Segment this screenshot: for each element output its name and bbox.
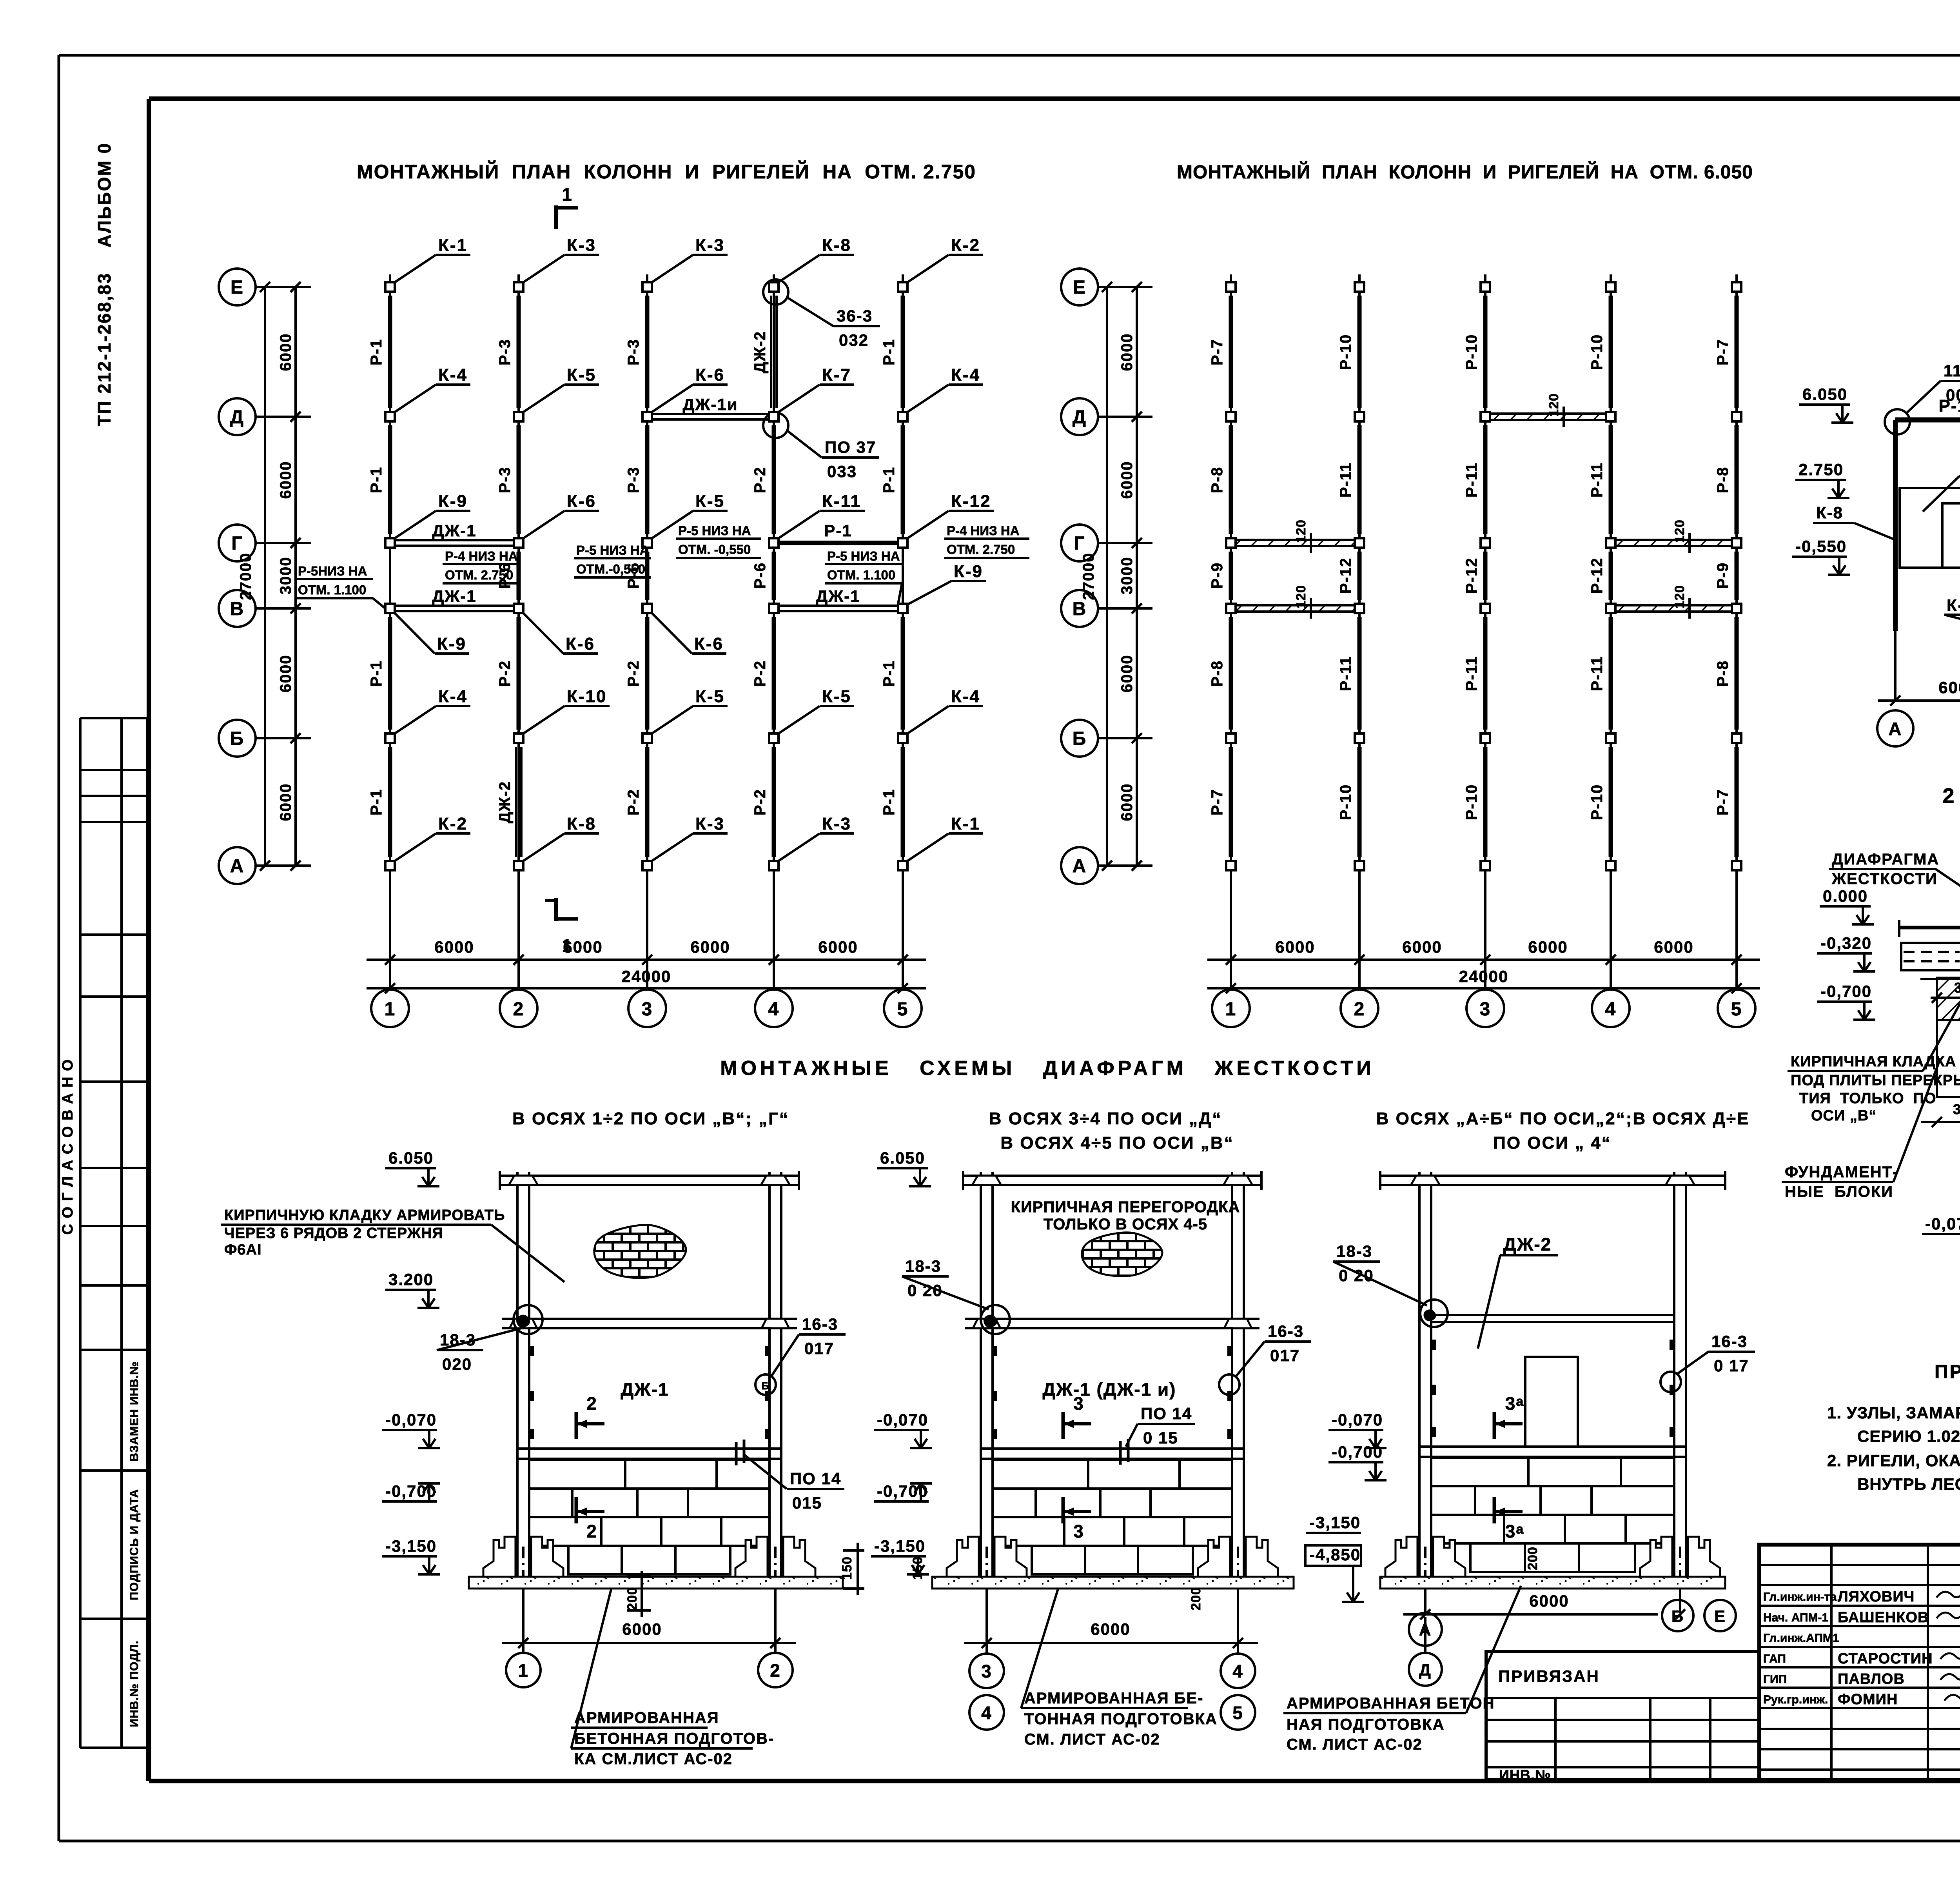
scheme 1 node circle 16-3 (right col) [755, 1374, 776, 1395]
ground strip армированная бетонная подготовка [932, 1577, 1294, 1589]
vertical dimension lines [264, 287, 266, 866]
svg-text:18-3: 18-3 [440, 1331, 476, 1349]
outer page border [59, 54, 1960, 57]
svg-text:2: 2 [770, 1660, 781, 1681]
svg-text:36-3: 36-3 [837, 307, 873, 325]
svg-text:300: 300 [1953, 1101, 1960, 1117]
svg-text:ОТМ. 2.750: ОТМ. 2.750 [947, 542, 1015, 557]
svg-text:009: 009 [1946, 386, 1960, 404]
beam Р-2 column line 4 rows Д-Г [772, 425, 776, 534]
svg-text:ГАП: ГАП [1763, 1652, 1786, 1665]
svg-text:5: 5 [897, 999, 909, 1020]
svg-text:К-3: К-3 [822, 814, 851, 833]
beam Р-11 right plan col2 Д-Г [1357, 425, 1362, 534]
svg-text:К-12: К-12 [951, 492, 991, 511]
node circle 11-3 top of col А [1885, 409, 1910, 434]
beam Р-10 right plan col3 Е-Д [1483, 296, 1488, 408]
axis circle А section 1-1 [1877, 710, 1913, 746]
inner drawing frame [149, 96, 1960, 101]
scheme 1 bottom dim 6000 [502, 1642, 796, 1644]
scheme middle beam 3.200 [502, 1318, 797, 1320]
svg-text:АРМИРОВАННАЯ БЕ-: АРМИРОВАННАЯ БЕ- [1024, 1690, 1203, 1707]
ДЖ-2 panel in section 1-1 [1900, 488, 1960, 568]
svg-text:-0,320: -0,320 [1820, 934, 1872, 952]
section 1-1 top beam 6.050 [1895, 418, 1960, 423]
node circle col4 row Д (ПО 37) [763, 413, 788, 438]
svg-text:Р-1: Р-1 [880, 789, 898, 815]
beam Р-9 right plan col1 Г-В [1229, 552, 1233, 600]
section mark 3<tspan baseline-shift="28%" font-size="34">а</tspan> [1493, 1497, 1496, 1523]
scheme top beam [1380, 1175, 1725, 1177]
svg-text:4: 4 [1232, 1661, 1243, 1681]
svg-text:А: А [1419, 1621, 1432, 1639]
svg-text:Д: Д [230, 407, 244, 428]
svg-text:6000: 6000 [1528, 938, 1568, 956]
svg-text:6.050: 6.050 [388, 1149, 434, 1167]
svg-text:6000: 6000 [277, 461, 294, 499]
beam Р-1 column line 1 rows Д-Г [388, 425, 392, 534]
ground strip армированная бетонная подготовка [469, 1577, 843, 1589]
svg-text:18-3: 18-3 [905, 1257, 941, 1275]
svg-text:Р-12: Р-12 [1588, 557, 1606, 594]
svg-text:-3,150: -3,150 [385, 1537, 437, 1555]
beam Р-10 right plan col4 Б-А [1609, 747, 1613, 857]
beam Р-7 right plan col5 Е-Д [1735, 296, 1739, 408]
scheme 2 node circle 18-3 [981, 1305, 1010, 1334]
svg-text:120: 120 [1672, 519, 1687, 543]
svg-text:К-10: К-10 [567, 687, 607, 706]
svg-text:6000: 6000 [1654, 938, 1693, 956]
title block left extension привязан [1486, 1652, 1759, 1780]
svg-text:А: А [1073, 856, 1087, 877]
axis number circle 5 [884, 989, 922, 1027]
scheme columns [516, 1172, 519, 1541]
svg-text:3: 3 [1073, 1521, 1084, 1541]
svg-text:6.050: 6.050 [880, 1149, 925, 1167]
svg-text:1: 1 [385, 999, 396, 1020]
svg-text:020: 020 [442, 1355, 472, 1373]
ground strip армированная бетонная подготовка [1380, 1577, 1725, 1589]
svg-text:ДЖ-2: ДЖ-2 [751, 331, 769, 373]
svg-text:Е: Е [230, 277, 244, 298]
svg-text:ДИАФРАГМА: ДИАФРАГМА [1832, 851, 1939, 868]
svg-text:6000: 6000 [1118, 333, 1136, 371]
svg-text:6000: 6000 [1118, 655, 1136, 693]
svg-text:27000: 27000 [237, 552, 254, 600]
svg-text:Р-8: Р-8 [1714, 467, 1731, 493]
beam Р-12 right plan col4 Г-В [1609, 552, 1613, 600]
svg-text:1: 1 [1225, 999, 1237, 1020]
beam Р-6 column line 4 rows Г-В [772, 552, 776, 600]
svg-text:0.000: 0.000 [1823, 887, 1868, 905]
scheme 3 axis circles А Д / Б Е [1424, 1617, 1426, 1653]
svg-text:Р-10: Р-10 [1337, 784, 1354, 821]
bottom dimension lines and axis number circles [1207, 959, 1760, 961]
svg-text:Р-4 НИЗ НА: Р-4 НИЗ НА [445, 549, 518, 563]
axis circle Е [219, 269, 256, 305]
svg-text:ПО 37: ПО 37 [825, 438, 876, 456]
title block signature table [1759, 1564, 1960, 1566]
scheme columns [980, 1172, 982, 1541]
beam Р-9 right plan col5 Г-В [1735, 552, 1739, 600]
svg-text:ПРИМЕЧАНИЯ: ПРИМЕЧАНИЯ [1935, 1362, 1960, 1382]
svg-text:Р-11: Р-11 [1463, 462, 1480, 497]
svg-text:Ф6АI: Ф6АI [224, 1242, 262, 1258]
svg-text:ТОЛЬКО В ОСЯХ 4-5: ТОЛЬКО В ОСЯХ 4-5 [1044, 1216, 1207, 1233]
svg-text:КА СМ.ЛИСТ АС-02: КА СМ.ЛИСТ АС-02 [574, 1750, 733, 1768]
svg-text:Р-2: Р-2 [625, 789, 642, 815]
svg-text:В ОСЯХ „А÷Б“ ПО ОСИ„2“;В ОСЯХ: В ОСЯХ „А÷Б“ ПО ОСИ„2“;В ОСЯХ Д÷Е [1376, 1109, 1750, 1128]
svg-text:Р-7: Р-7 [1209, 339, 1226, 365]
svg-text:К-6: К-6 [567, 492, 596, 511]
footings [1385, 1537, 1417, 1577]
svg-text:27000: 27000 [1080, 552, 1097, 600]
svg-text:6000: 6000 [277, 655, 294, 693]
footings [483, 1537, 515, 1577]
svg-text:Р-5 НИЗ НА: Р-5 НИЗ НА [827, 549, 900, 563]
svg-text:НЫЕ БЛОКИ: НЫЕ БЛОКИ [1785, 1183, 1893, 1200]
beam Р-3 column line 2 rows Е-Д [517, 296, 521, 408]
svg-text:Р-7: Р-7 [1714, 789, 1731, 815]
svg-text:6000: 6000 [818, 938, 858, 956]
section 1-1 bottom dims [1878, 699, 1960, 702]
svg-text:ДЖ-1: ДЖ-1 [432, 587, 476, 605]
scheme columns [1418, 1172, 1421, 1541]
svg-text:-0,550: -0,550 [1795, 537, 1847, 556]
beam Р-8 right plan col5 В-Б [1735, 617, 1739, 730]
svg-text:К-6: К-6 [695, 365, 725, 385]
svg-text:ОТМ.-0,550: ОТМ.-0,550 [576, 562, 645, 576]
scheme 3 node circle 16-3 [1661, 1372, 1681, 1392]
2-2 foundation block [1937, 1020, 1960, 1097]
svg-text:Р-1: Р-1 [824, 521, 852, 540]
beam Р-3 column line 3 rows Е-Д [645, 296, 650, 408]
svg-text:11-3: 11-3 [1944, 361, 1960, 380]
left plan section mark 1 bottom [554, 898, 558, 921]
svg-text:6000: 6000 [277, 333, 294, 371]
beam Р-1 column line 5 rows Б-А [901, 747, 905, 857]
bottom dimension lines and axis number circles [367, 959, 926, 961]
svg-text:Р-4 НИЗ НА: Р-4 НИЗ НА [947, 523, 1020, 538]
svg-text:6000: 6000 [1275, 938, 1315, 956]
title block main frame [1759, 1545, 1960, 1780]
svg-text:ТОННАЯ ПОДГОТОВКА: ТОННАЯ ПОДГОТОВКА [1024, 1710, 1218, 1728]
beam Р-1 column line 5 rows Е-Д [901, 296, 905, 408]
svg-text:-0,700: -0,700 [1332, 1443, 1383, 1461]
svg-text:К-6: К-6 [694, 634, 724, 654]
svg-text:ДЖ-1 (ДЖ-1 и): ДЖ-1 (ДЖ-1 и) [1043, 1379, 1176, 1400]
axis circle А [1061, 847, 1098, 884]
svg-text:-4,850: -4,850 [1309, 1545, 1361, 1564]
svg-text:Р-12: Р-12 [1463, 557, 1480, 594]
beam Р-11 right plan col3 В-Б [1483, 617, 1488, 730]
svg-text:Р-8: Р-8 [1209, 660, 1226, 687]
svg-text:18-3: 18-3 [1336, 1242, 1372, 1260]
beam ДЖ-2 column line 2 rows Б-А [515, 747, 517, 857]
svg-text:3000: 3000 [1118, 557, 1136, 595]
svg-text:ОТМ. -0,550: ОТМ. -0,550 [678, 542, 751, 557]
scheme 2 bottom dim 6000 [964, 1642, 1258, 1644]
svg-text:С О Г Л А С О В А Н О: С О Г Л А С О В А Н О [60, 1058, 76, 1235]
beam Р-7 right plan col1 Е-Д [1229, 296, 1233, 408]
svg-text:16-3: 16-3 [1711, 1332, 1748, 1351]
svg-text:Р-6: Р-6 [751, 562, 769, 589]
svg-text:Б: Б [1671, 1607, 1684, 1625]
svg-text:Р-5НИЗ НА: Р-5НИЗ НА [298, 564, 367, 578]
beam Р-11 right plan col4 Д-Г [1609, 425, 1613, 534]
axis number circle 1 [1212, 989, 1250, 1027]
svg-text:СЕРИЮ 1.020-1 ВЫПУСК 1 -1.: СЕРИЮ 1.020-1 ВЫПУСК 1 -1. [1857, 1427, 1960, 1445]
svg-text:Р-9: Р-9 [1209, 562, 1226, 589]
axis circle А [219, 847, 256, 884]
axis circle Г [1061, 525, 1098, 561]
svg-text:6000: 6000 [1529, 1592, 1569, 1610]
beam Р-2 column line 2 rows В-Б [517, 617, 521, 730]
beam Р-6 column line 3 rows Г-В [645, 552, 650, 600]
beam Р-1 column line 1 rows Б-А [388, 747, 392, 857]
right plan column grid lines [1230, 274, 1232, 960]
svg-text:Б: Б [762, 1380, 770, 1392]
svg-text:Нач. АПМ-1: Нач. АПМ-1 [1763, 1611, 1828, 1624]
beam Р-10 right plan col4 Е-Д [1609, 296, 1613, 408]
svg-text:ИНВ.№: ИНВ.№ [1499, 1767, 1551, 1783]
beam Р-8 right plan col5 Д-Г [1735, 425, 1739, 534]
svg-text:ИНВ.№ ПОДЛ.: ИНВ.№ ПОДЛ. [128, 1640, 141, 1727]
axis circle Е [1061, 269, 1098, 305]
svg-text:6.050: 6.050 [1802, 385, 1847, 403]
svg-text:К-2: К-2 [951, 236, 980, 255]
svg-text:К-4: К-4 [951, 365, 980, 385]
svg-text:Р-3: Р-3 [625, 467, 642, 493]
svg-text:БЕТОННАЯ ПОДГОТОВ-: БЕТОННАЯ ПОДГОТОВ- [574, 1730, 774, 1747]
svg-text:НАЯ ПОДГОТОВКА: НАЯ ПОДГОТОВКА [1287, 1716, 1445, 1733]
svg-text:Е: Е [1073, 277, 1086, 298]
foundation blocks [1431, 1458, 1674, 1486]
svg-text:1: 1 [562, 184, 573, 205]
svg-text:3.200: 3.200 [388, 1270, 434, 1289]
axis circle Б [1061, 720, 1098, 757]
svg-text:150: 150 [910, 1556, 925, 1580]
beam Р-11 right plan col2 В-Б [1357, 617, 1362, 730]
beam Р-8 right plan col1 В-Б [1229, 617, 1233, 730]
scheme panel [529, 1328, 769, 1449]
beam Р-3 column line 3 rows Д-Г [645, 425, 650, 534]
beam Р-8 right plan col1 Д-Г [1229, 425, 1233, 534]
svg-text:ПАВЛОВ: ПАВЛОВ [1838, 1671, 1905, 1687]
svg-text:ДЖ-1и: ДЖ-1и [682, 395, 738, 414]
svg-text:6000: 6000 [277, 783, 294, 821]
svg-text:К-6: К-6 [566, 634, 595, 654]
svg-text:2.750: 2.750 [1798, 460, 1844, 479]
svg-text:ПРИВЯЗАН: ПРИВЯЗАН [1498, 1667, 1600, 1685]
beam Р-6 column line 2 rows Г-В [517, 552, 521, 600]
svg-text:В ОСЯХ 1÷2 ПО ОСИ „В“; „Г“: В ОСЯХ 1÷2 ПО ОСИ „В“; „Г“ [512, 1109, 789, 1128]
scheme panel [993, 1328, 1232, 1449]
svg-text:Гл.инж.ин-та: Гл.инж.ин-та [1763, 1590, 1837, 1603]
svg-text:ДЖ-1: ДЖ-1 [816, 587, 860, 605]
svg-text:ОТМ. 1.100: ОТМ. 1.100 [298, 583, 366, 597]
2-2 foundation dims 300 100 [1921, 1121, 1960, 1123]
svg-text:ПО ОСИ „ 4“: ПО ОСИ „ 4“ [1493, 1133, 1612, 1153]
svg-text:015: 015 [792, 1494, 822, 1512]
scheme 3 node circle 18-3 [1420, 1300, 1448, 1327]
svg-text:Р-8: Р-8 [1209, 467, 1226, 493]
svg-text:Р-1: Р-1 [880, 339, 898, 365]
svg-text:Д: Д [1073, 407, 1087, 428]
svg-text:Р-9: Р-9 [1714, 562, 1731, 589]
svg-text:6000: 6000 [434, 938, 474, 956]
svg-text:К-1: К-1 [951, 814, 980, 833]
node circle col4 row Е (36-3) [763, 280, 788, 305]
svg-text:Р-1: Р-1 [368, 789, 385, 815]
svg-text:Р-3: Р-3 [496, 339, 514, 365]
svg-text:ЛЯХОВИЧ: ЛЯХОВИЧ [1838, 1589, 1915, 1605]
svg-text:Р-2: Р-2 [751, 467, 769, 493]
svg-text:Р-10: Р-10 [1588, 784, 1606, 821]
beam ДЖ-1 row Г cols1-2 [396, 539, 513, 541]
svg-text:Д: Д [1419, 1661, 1432, 1679]
axis circle В [1061, 590, 1098, 627]
svg-text:2 - 2: 2 - 2 [1942, 784, 1960, 808]
svg-text:МОНТАЖНЫЕ СХЕМЫ ДИАФРАГМ: МОНТАЖНЫЕ СХЕМЫ ДИАФРАГМ ЖЕСТКОСТИ [720, 1057, 1375, 1080]
beam Р-12 right plan col2 Г-В [1357, 552, 1362, 600]
beam Р-10 right plan col3 Б-А [1483, 747, 1488, 857]
scheme floor beam -0.070 [1419, 1445, 1686, 1448]
svg-text:1. УЗЛЫ, ЗАМАРКИРОВАННЫЕ НА М: 1. УЗЛЫ, ЗАМАРКИРОВАННЫЕ НА МОНТАЖНЫХ СХ… [1827, 1403, 1960, 1422]
svg-text:ФОМИН: ФОМИН [1838, 1691, 1898, 1708]
svg-text:Р-1: Р-1 [368, 467, 385, 493]
svg-text:К-9: К-9 [438, 492, 468, 511]
scheme floor beam -0.070 [981, 1447, 1244, 1450]
svg-text:24000: 24000 [1459, 967, 1509, 986]
svg-text:6000: 6000 [1118, 461, 1136, 499]
beam Р-10 right plan col2 Б-А [1357, 747, 1362, 857]
svg-text:К-10: К-10 [1947, 596, 1960, 614]
svg-text:3: 3 [642, 999, 653, 1020]
hatched beam 120 row Д cols 3-4 [1491, 412, 1605, 415]
svg-text:120: 120 [1672, 585, 1687, 608]
scheme 2 axis circles 3 4 / 4 5 [969, 1654, 1004, 1688]
svg-text:Р-5 НИЗ НА: Р-5 НИЗ НА [576, 543, 649, 557]
svg-text:К-1: К-1 [438, 236, 468, 255]
svg-text:Р-2: Р-2 [625, 660, 642, 687]
svg-text:Б: Б [230, 728, 245, 749]
svg-text:Р-10: Р-10 [1337, 334, 1354, 370]
scheme middle beam 3.200 [965, 1318, 1259, 1320]
svg-text:16-3: 16-3 [802, 1315, 838, 1333]
svg-text:К-4: К-4 [951, 687, 980, 706]
svg-text:200: 200 [1189, 1587, 1203, 1610]
svg-text:5: 5 [1232, 1703, 1243, 1723]
svg-text:200: 200 [1525, 1547, 1540, 1570]
beam Р-1 row Г cols4-5 thick [780, 541, 897, 545]
svg-text:-3,150: -3,150 [874, 1537, 926, 1555]
scheme panel top line [1431, 1314, 1674, 1316]
scheme 3 door opening [1525, 1357, 1578, 1447]
axis number circle 4 [755, 989, 793, 1027]
svg-text:К-5: К-5 [567, 365, 596, 385]
beam Р-11 right plan col3 Д-Г [1483, 425, 1488, 534]
svg-text:ВЗАМЕН ИНВ.№: ВЗАМЕН ИНВ.№ [128, 1361, 141, 1461]
svg-text:В ОСЯХ 3÷4 ПО ОСИ „Д“: В ОСЯХ 3÷4 ПО ОСИ „Д“ [989, 1109, 1222, 1128]
svg-text:Р-1: Р-1 [880, 467, 898, 493]
svg-text:ПО 14: ПО 14 [1141, 1404, 1192, 1423]
svg-text:ВНУТРЬ ЛЕСТНИЦ.: ВНУТРЬ ЛЕСТНИЦ. [1857, 1475, 1960, 1493]
svg-text:ДЖ-1: ДЖ-1 [621, 1379, 669, 1400]
svg-text:ДЖ-2: ДЖ-2 [496, 781, 514, 823]
svg-text:АРМИРОВАННАЯ БЕТОН: АРМИРОВАННАЯ БЕТОН [1287, 1695, 1495, 1712]
svg-text:Р-10: Р-10 [1588, 334, 1606, 370]
svg-text:К-4: К-4 [438, 687, 468, 706]
axis circle В [219, 590, 256, 627]
beam Р-12 right plan col3 Г-В [1483, 552, 1488, 600]
svg-text:К-5: К-5 [695, 492, 725, 511]
svg-text:Р-1: Р-1 [368, 660, 385, 687]
svg-text:3: 3 [1480, 999, 1491, 1020]
svg-text:6000: 6000 [1118, 783, 1136, 821]
column squares left plan [385, 282, 395, 292]
svg-text:4: 4 [1605, 999, 1617, 1020]
svg-text:Р-11: Р-11 [1588, 656, 1606, 691]
svg-text:В ОСЯХ 4÷5 ПО ОСИ „В“: В ОСЯХ 4÷5 ПО ОСИ „В“ [1000, 1133, 1234, 1153]
svg-text:К-8: К-8 [1816, 503, 1843, 522]
svg-text:-0,070: -0,070 [877, 1411, 928, 1429]
svg-text:033: 033 [827, 462, 857, 481]
svg-text:1: 1 [518, 1660, 529, 1681]
hatched beam 120 row Г cols 4-5 [1617, 539, 1731, 541]
svg-text:Р-8: Р-8 [1714, 660, 1731, 687]
svg-text:К-3: К-3 [695, 814, 725, 833]
svg-text:ОТМ. 1.100: ОТМ. 1.100 [827, 568, 895, 582]
svg-text:6000: 6000 [622, 1620, 662, 1638]
svg-text:-0,700: -0,700 [1820, 982, 1872, 1000]
svg-text:4: 4 [768, 999, 780, 1020]
svg-text:ДЖ-2: ДЖ-2 [1503, 1234, 1552, 1255]
svg-text:Р-7: Р-7 [1209, 789, 1226, 815]
vertical dimension lines [1106, 287, 1108, 866]
svg-text:К-4: К-4 [438, 365, 468, 385]
svg-text:ДЖ-1: ДЖ-1 [432, 521, 476, 540]
beam Р-2 column line 4 rows В-Б [772, 617, 776, 730]
axis circle Д [1061, 398, 1098, 435]
svg-text:ФУНДАМЕНТ-: ФУНДАМЕНТ- [1785, 1164, 1898, 1181]
svg-text:Р-2: Р-2 [496, 660, 514, 687]
svg-text:Р-11: Р-11 [1337, 656, 1354, 691]
svg-text:120: 120 [1294, 519, 1308, 543]
hatched beam 120 row В cols 4-5 [1617, 604, 1731, 606]
svg-text:В: В [1073, 599, 1087, 619]
axis number circle 1 [371, 989, 409, 1027]
sidebar lower cells [79, 1350, 82, 1748]
beam Р-11 right plan col4 В-Б [1609, 617, 1613, 730]
beam Р-2 column line 3 rows Б-А [645, 747, 650, 857]
beam ДЖ-2 column line 4 rows Е-Д [770, 296, 772, 408]
svg-text:Р-11: Р-11 [1588, 462, 1606, 497]
svg-text:К-3: К-3 [695, 236, 725, 255]
svg-text:017: 017 [1270, 1346, 1300, 1365]
scheme floor beam -0.070 [517, 1447, 781, 1450]
svg-text:2: 2 [513, 999, 524, 1020]
svg-text:ГИП: ГИП [1763, 1673, 1787, 1686]
svg-text:СМ. ЛИСТ АС-02: СМ. ЛИСТ АС-02 [1024, 1731, 1160, 1748]
beam Р-7 right plan col1 Б-А [1229, 747, 1233, 857]
svg-text:Р-11: Р-11 [1337, 462, 1354, 497]
svg-text:032: 032 [839, 331, 869, 349]
svg-text:Р-2: Р-2 [751, 789, 769, 815]
hatched beam 120 row Г cols 1-2 [1237, 539, 1354, 541]
beam Р-1 column line 5 rows В-Б [901, 617, 905, 730]
svg-text:К-9: К-9 [954, 562, 983, 581]
